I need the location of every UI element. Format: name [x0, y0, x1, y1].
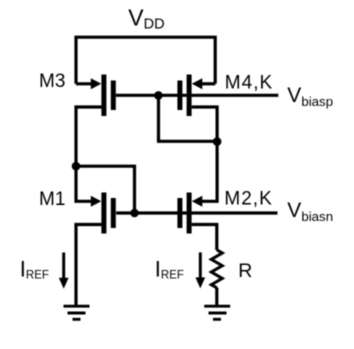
wire: cascode node branch to M1/M2 gates [76, 166, 135, 213]
resistor R [211, 250, 222, 288]
svg-text:Vbiasn: Vbiasn [287, 199, 333, 224]
wire: top bias line (M3 gate to M4 gate to Vbiasp) [116, 94, 278, 97]
svg-text:R: R [238, 260, 252, 282]
ground (right) [204, 306, 230, 319]
wire: M4 drain down to M2 source [192, 107, 218, 201]
svg-text:IREF: IREF [20, 257, 49, 282]
transistor M3 [76, 75, 116, 117]
current annotation IREF (right) [195, 252, 205, 288]
svg-text:VDD: VDD [128, 5, 164, 33]
svg-text:M4,K: M4,K [225, 72, 273, 93]
svg-text:M1: M1 [39, 189, 65, 210]
svg-text:M3: M3 [39, 71, 65, 92]
wire: resistor bottom to ground [215, 288, 218, 306]
transistor M4 [177, 75, 215, 117]
power rail VDD [76, 37, 215, 84]
wire: M2 drain to resistor [192, 225, 217, 251]
svg-text:Vbiasp: Vbiasp [287, 84, 333, 109]
ground (left) [64, 306, 90, 319]
current annotation IREF (left) [59, 253, 69, 289]
wire: M4 gate-drain loop [159, 95, 218, 141]
wire: M3 drain down to M1 source [76, 107, 102, 201]
transistor M1 [91, 193, 116, 234]
node: cascode node on left branch [72, 162, 81, 171]
node: M4 drain junction [213, 137, 222, 146]
svg-text:IREF: IREF [155, 257, 184, 282]
wire: bottom bias line (M1 gate to M2 gate to Vbiasn) [116, 211, 277, 214]
transistor M2 [177, 193, 202, 234]
node: M1/M2 gate line junction [130, 209, 139, 218]
node: Vbiasp / M3-M4 gate junction [154, 91, 163, 100]
wire: M1 drain to ground [76, 225, 102, 306]
svg-text:M2,K: M2,K [224, 189, 272, 210]
